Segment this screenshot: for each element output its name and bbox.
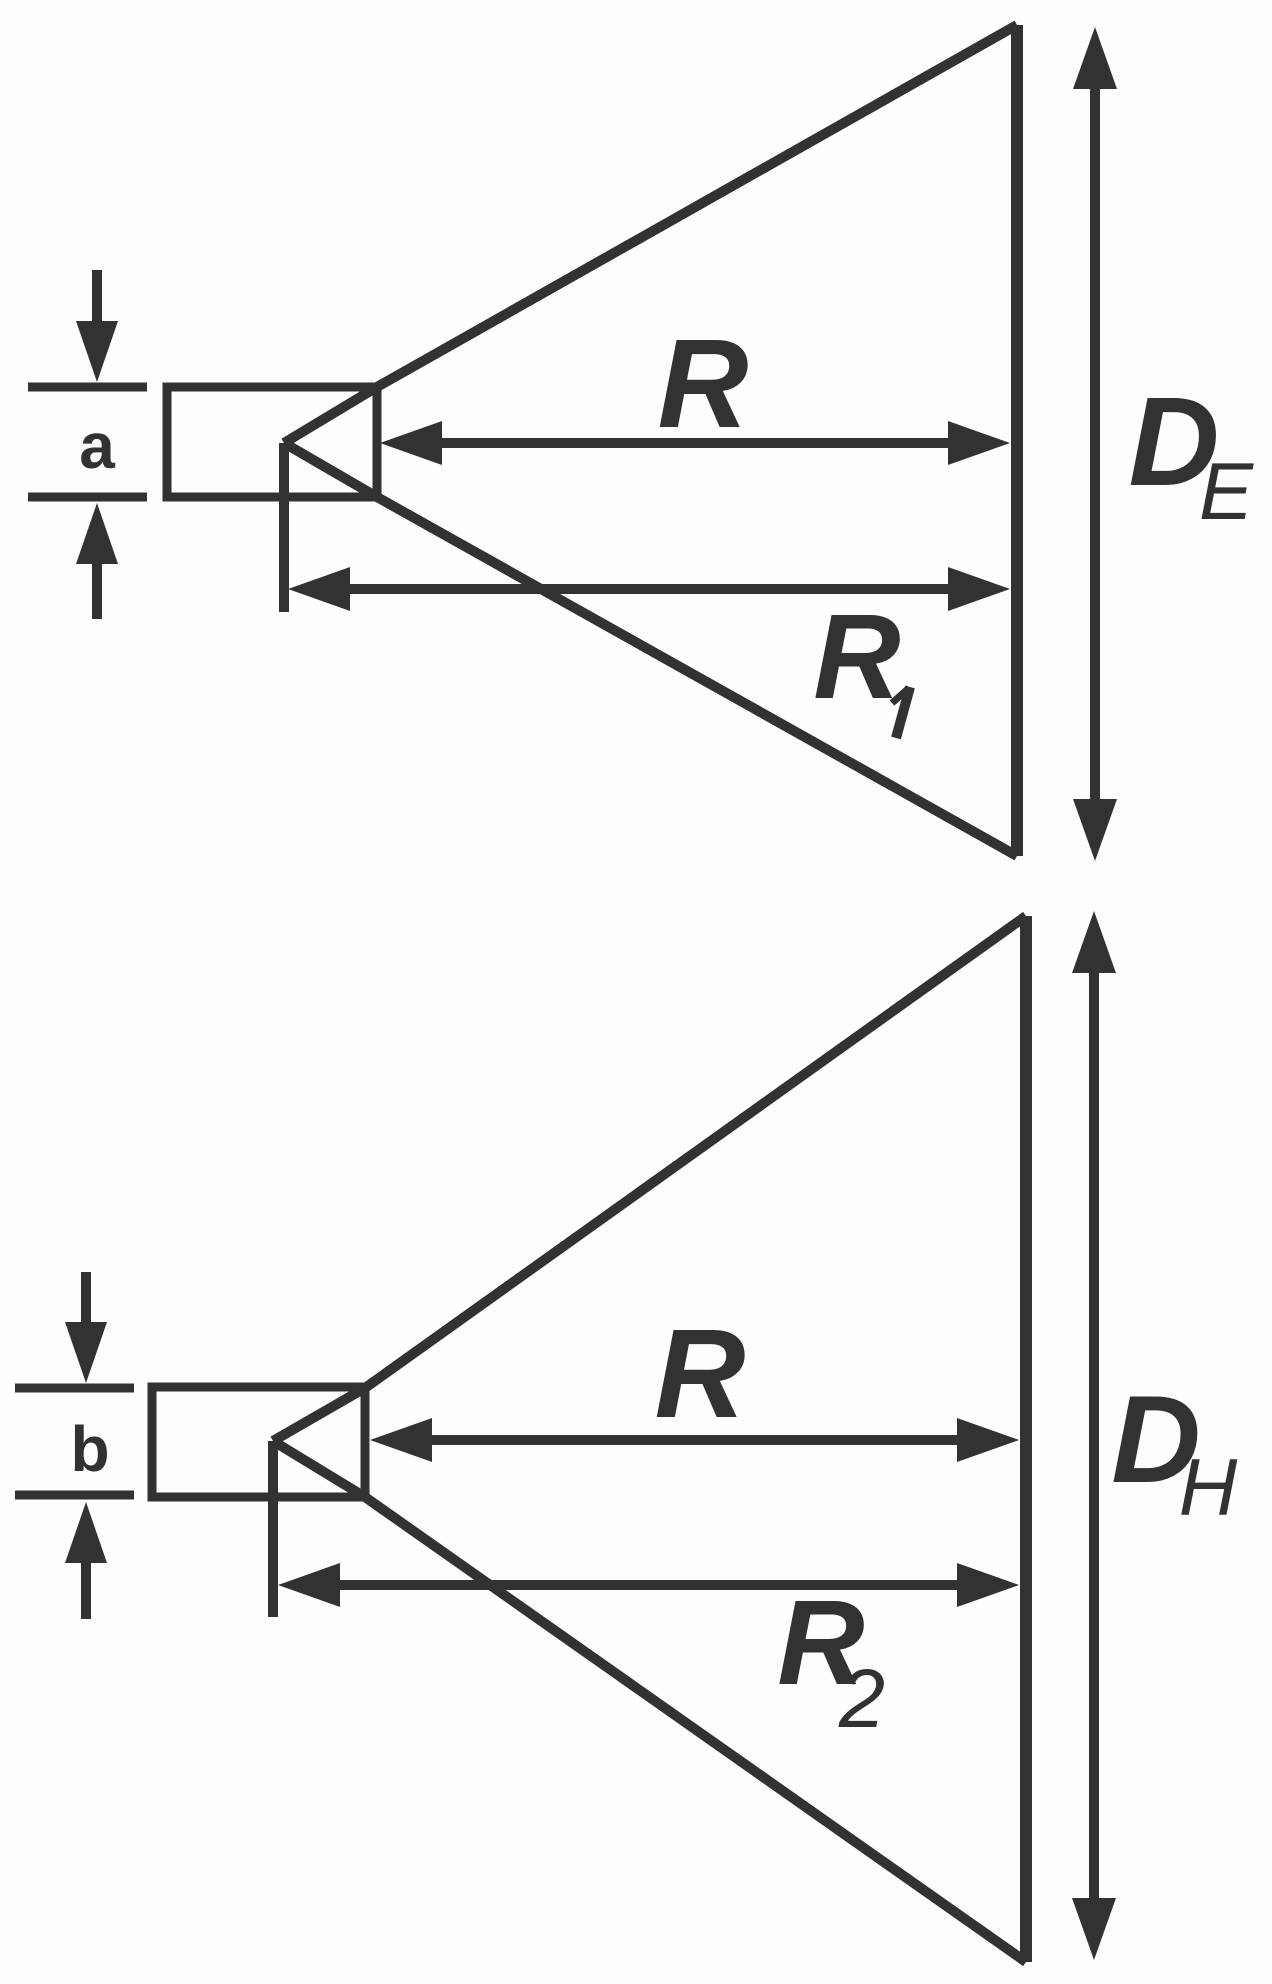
- dimension tick lower b: [15, 1491, 134, 1500]
- R1 double arrow: [288, 567, 1010, 611]
- horn apex upper edge (bottom figure): [273, 1388, 365, 1441]
- horn top flare (top figure): [377, 25, 1017, 387]
- DH double arrow: [1072, 911, 1116, 1960]
- horn bottom flare (bottom figure): [365, 1497, 1026, 1962]
- R double arrow (bottom figure): [370, 1418, 1019, 1462]
- horn apex lower edge (top figure): [284, 443, 377, 497]
- waveguide rectangle (bottom figure): [152, 1387, 365, 1497]
- DE double arrow: [1073, 27, 1117, 861]
- horn bottom flare (top figure): [377, 497, 1017, 856]
- dimension tick lower a: [28, 493, 147, 502]
- svg-text:H: H: [1179, 1443, 1238, 1533]
- dimension arrow down (b, above): [65, 1272, 107, 1383]
- horn top flare (bottom figure): [365, 916, 1026, 1388]
- apex vertical reference line (top figure): [279, 443, 289, 612]
- aperture plane line (bottom figure): [1020, 916, 1032, 1962]
- svg-text:E: E: [1199, 447, 1254, 537]
- R double arrow (top figure): [380, 421, 1010, 465]
- svg-text:R: R: [658, 313, 749, 454]
- waveguide rectangle (top figure): [167, 387, 377, 497]
- dimension tick upper b: [15, 1384, 134, 1393]
- dimension tick upper a: [28, 383, 147, 392]
- svg-text:R: R: [813, 588, 900, 724]
- aperture plane line (top figure): [1011, 25, 1023, 856]
- horn apex lower edge (bottom figure): [273, 1441, 365, 1497]
- svg-text:R: R: [655, 1303, 746, 1444]
- svg-text:a: a: [79, 410, 115, 482]
- horn apex upper edge (top figure): [284, 387, 377, 443]
- svg-text:2: 2: [838, 1652, 885, 1745]
- R2 double arrow: [278, 1563, 1019, 1607]
- dimension arrow up (b, below): [65, 1502, 107, 1619]
- apex vertical reference line (bottom figure): [268, 1441, 278, 1617]
- label R1 subscript 1: [892, 687, 910, 738]
- svg-text:b: b: [70, 1413, 109, 1485]
- dimension arrow down (a, above): [76, 270, 118, 382]
- dimension arrow up (a, below): [76, 503, 118, 619]
